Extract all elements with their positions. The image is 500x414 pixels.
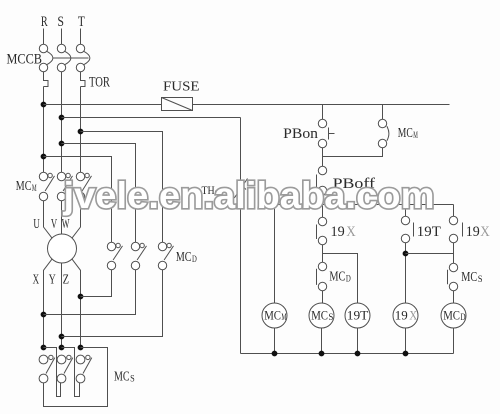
wire T vertical bbox=[80, 87, 82, 173]
breaker MCCB pole R bbox=[39, 44, 47, 52]
wire junction to MCS-NC bbox=[406, 253, 454, 255]
breaker MCCB pole S bbox=[57, 44, 65, 52]
wire T top stub bbox=[80, 29, 82, 45]
wire control L1 to fuse bbox=[44, 104, 162, 106]
wire star loop X to pole2 bbox=[44, 348, 61, 397]
svg-text:jvele.en.alibaba.com: jvele.en.alibaba.com bbox=[62, 175, 434, 216]
wire R top stub bbox=[43, 29, 45, 45]
wire 19X2 contact drop bbox=[453, 205, 455, 217]
wire S through bbox=[61, 72, 63, 173]
contactor MCD pole 1 bbox=[113, 246, 122, 260]
node tap1 junction bbox=[41, 102, 47, 108]
svg-text:D: D bbox=[460, 312, 466, 322]
svg-text:S: S bbox=[328, 312, 333, 322]
svg-text:X: X bbox=[33, 272, 40, 287]
svg-text:19: 19 bbox=[466, 224, 480, 240]
node star X junction bbox=[41, 345, 47, 351]
svg-text:FUSE: FUSE bbox=[163, 80, 200, 95]
node rail dot MCS bbox=[319, 351, 325, 357]
svg-text:V: V bbox=[51, 217, 57, 232]
node tap3 junction bbox=[78, 129, 84, 135]
wire R to MCD pole1 bbox=[44, 157, 112, 243]
wire bottom rail bbox=[241, 353, 454, 355]
contact 19X no.2 bbox=[449, 216, 457, 224]
wire 19X to MCD-NC bbox=[322, 245, 324, 263]
wire R vertical bbox=[43, 87, 45, 173]
thermal contact TH blade bbox=[234, 179, 247, 199]
node X-delta junction bbox=[41, 312, 47, 318]
svg-text:X: X bbox=[480, 224, 490, 240]
svg-text:S: S bbox=[57, 14, 64, 30]
svg-text:D: D bbox=[346, 274, 351, 284]
svg-text:Z: Z bbox=[63, 272, 69, 287]
svg-text:19T: 19T bbox=[417, 224, 441, 240]
node tap2 junction bbox=[59, 115, 65, 121]
wire Z lead bbox=[72, 259, 81, 348]
wire MCS coil to rail bbox=[321, 328, 323, 354]
svg-text:PBon: PBon bbox=[283, 126, 318, 142]
wire top rail bbox=[193, 104, 450, 106]
node rail dot 19X bbox=[403, 351, 409, 357]
wire PBoff to branch row bbox=[322, 195, 324, 218]
svg-text:MC: MC bbox=[443, 308, 460, 322]
breaker MCCB trip bar bbox=[53, 57, 89, 59]
svg-text:M: M bbox=[281, 312, 286, 322]
wire MCM coil to rail bbox=[274, 328, 276, 354]
svg-text:MC: MC bbox=[398, 125, 413, 140]
node tap4 junction bbox=[59, 141, 65, 147]
svg-text:M: M bbox=[32, 183, 37, 193]
wire star loop Z to pole1 bbox=[44, 348, 108, 407]
svg-text:Y: Y bbox=[49, 272, 56, 287]
contact MCD NC interlock bbox=[318, 262, 326, 270]
pushbutton PBon contact bbox=[318, 119, 326, 127]
node 19T-19X junction bbox=[403, 251, 409, 257]
wire MCS-NC to MCD coil bbox=[453, 291, 455, 303]
wire 19X2 to MCS-NC bbox=[453, 243, 455, 264]
svg-text:MCCB: MCCB bbox=[7, 51, 43, 67]
svg-text:MC: MC bbox=[114, 370, 130, 385]
svg-text:19: 19 bbox=[395, 308, 408, 322]
contact MCS NC interlock bbox=[449, 263, 457, 271]
svg-text:X: X bbox=[409, 308, 417, 322]
node rail dot MCM bbox=[272, 351, 278, 357]
svg-text:MC: MC bbox=[176, 250, 192, 265]
coil 19T bbox=[345, 303, 370, 328]
svg-text:W: W bbox=[62, 217, 70, 232]
node Y-delta junction bbox=[59, 334, 65, 340]
wire T to MCD pole3 bbox=[81, 132, 163, 243]
svg-text:19T: 19T bbox=[347, 308, 369, 322]
coil MCD bbox=[441, 303, 466, 328]
svg-text:19: 19 bbox=[331, 224, 345, 240]
wire 19X coil to rail bbox=[405, 328, 407, 354]
node rail dot 19T bbox=[355, 351, 361, 357]
wire Y lead bbox=[61, 263, 63, 348]
svg-text:S: S bbox=[130, 374, 135, 384]
coil MCS bbox=[309, 303, 334, 328]
wire MCM coil feed bbox=[274, 205, 276, 304]
node tap5 junction bbox=[41, 154, 47, 160]
wire 19T coil to rail bbox=[357, 328, 359, 354]
contactor MCS pole 1 bbox=[46, 358, 55, 374]
wire to PBoff bbox=[322, 157, 324, 167]
contactor MCD pole 2 bbox=[137, 246, 146, 260]
contactor MCM pole S bbox=[63, 176, 72, 191]
contactor MCS pole 3 bbox=[83, 358, 92, 374]
svg-text:MC: MC bbox=[311, 308, 328, 322]
contact MCM aux bbox=[378, 119, 386, 127]
contact 19X no.1 bbox=[318, 217, 326, 225]
contact 19T bbox=[401, 216, 409, 224]
wire star loop Y to pole3 bbox=[62, 348, 80, 397]
wire Z to MCD pole1 bottom bbox=[81, 270, 112, 297]
svg-text:S: S bbox=[478, 274, 483, 284]
svg-text:MC: MC bbox=[16, 179, 32, 194]
svg-text:TOR: TOR bbox=[89, 74, 110, 90]
coil 19X bbox=[393, 303, 418, 328]
wire V lead bbox=[61, 201, 63, 234]
wire left rail upper bbox=[240, 118, 242, 181]
svg-text:MC: MC bbox=[264, 308, 281, 322]
contactor MCM pole T bbox=[82, 176, 91, 191]
contactor MCM pole R bbox=[45, 176, 54, 191]
wire S to MCD pole2 bbox=[62, 144, 136, 243]
contactor MCD pole 3 bbox=[164, 246, 173, 260]
wire W lead bbox=[72, 201, 81, 239]
wire MCD coil to rail bbox=[453, 328, 455, 354]
wire PBon-MCM link bbox=[323, 148, 383, 157]
wire Y to MCD pole3 bottom bbox=[62, 270, 163, 337]
wire MCM aux drop bbox=[382, 105, 384, 120]
overload heater TOR on T bbox=[81, 72, 86, 87]
contactor MCS pole 2 bbox=[64, 358, 73, 374]
node Z-delta junction bbox=[78, 294, 84, 300]
node star Z junction bbox=[78, 345, 84, 351]
overload heater TOR on R bbox=[44, 72, 49, 87]
wire 19T to junction bbox=[405, 243, 407, 303]
wire branch to 19T coil bbox=[323, 254, 358, 304]
svg-text:T: T bbox=[78, 14, 85, 30]
svg-text:D: D bbox=[192, 254, 197, 264]
node star Y junction bbox=[59, 345, 65, 351]
wire U lead bbox=[44, 201, 53, 239]
svg-text:U: U bbox=[33, 217, 39, 232]
fuse FUSE body bbox=[162, 98, 193, 111]
wire X to MCD pole2 bottom bbox=[44, 270, 136, 315]
svg-text:M: M bbox=[413, 130, 418, 140]
svg-text:X: X bbox=[346, 224, 356, 240]
svg-text:MC: MC bbox=[329, 270, 345, 285]
breaker MCCB pole T bbox=[76, 44, 84, 52]
wire branch row bbox=[275, 204, 454, 206]
wire PBon drop bbox=[322, 105, 324, 120]
wire MCD-NC to MCS coil bbox=[322, 291, 324, 303]
wire S top stub bbox=[61, 29, 63, 45]
svg-text:MC: MC bbox=[461, 270, 477, 285]
wire X lead bbox=[44, 259, 53, 348]
coil MCM bbox=[262, 303, 287, 328]
svg-text:R: R bbox=[41, 14, 48, 30]
pushbutton PBoff contact bbox=[318, 166, 326, 174]
wire 19T contact drop bbox=[405, 205, 407, 217]
wire control L2 tap bbox=[62, 117, 241, 119]
motor M circle bbox=[48, 234, 77, 263]
wire left rail lower bbox=[240, 196, 242, 354]
